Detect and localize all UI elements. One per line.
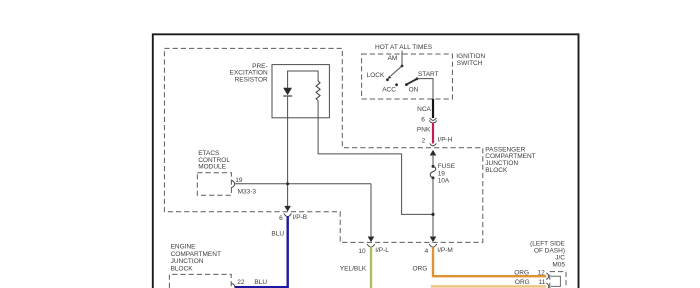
- wire J/C internal bus: [551, 276, 561, 286]
- svg-text:11: 11: [539, 279, 546, 286]
- svg-text:JUNCTION: JUNCTION: [171, 258, 204, 265]
- svg-text:START: START: [418, 71, 439, 78]
- resistor element: [316, 81, 320, 101]
- node AM contact: [401, 65, 404, 68]
- connector 11 at J/C: [547, 283, 549, 288]
- svg-text:10A: 10A: [438, 178, 450, 185]
- label pre-excitation resistor: [230, 63, 268, 84]
- solid border frame: [153, 34, 579, 288]
- svg-text:2: 2: [422, 137, 426, 144]
- svg-text:6: 6: [421, 116, 425, 123]
- svg-text:OF DASH): OF DASH): [534, 248, 565, 255]
- node junction dot: [286, 182, 289, 185]
- pre-excitation resistor box: [272, 65, 329, 118]
- wire BLU: [235, 217, 288, 288]
- wire ORG 11 (lower): [431, 285, 547, 287]
- switch arm ON-START (closed): [406, 79, 417, 85]
- wire NCA (thick black): [432, 99, 434, 118]
- svg-text:ORG: ORG: [514, 270, 529, 277]
- svg-text:10: 10: [358, 248, 366, 255]
- svg-text:EXCITATION: EXCITATION: [230, 69, 268, 76]
- svg-text:MODULE: MODULE: [198, 164, 226, 171]
- svg-text:BLOCK: BLOCK: [485, 167, 508, 174]
- wire START output: [417, 79, 433, 100]
- svg-text:BLU: BLU: [254, 279, 267, 286]
- svg-text:NCA: NCA: [417, 106, 431, 113]
- wire internal top: [288, 71, 319, 88]
- arrow connector 4 I/P-M: [430, 237, 437, 243]
- wire resistor branch to fuse output: [318, 101, 432, 215]
- svg-text:ORG: ORG: [515, 279, 530, 286]
- switch arm AM-LOCK: [390, 66, 402, 76]
- svg-text:AM: AM: [388, 55, 398, 62]
- svg-text:COMPARTMENT: COMPARTMENT: [171, 251, 221, 258]
- label ignition switch: [456, 53, 485, 67]
- wire AM feed: [401, 51, 403, 66]
- node START contact: [416, 77, 419, 80]
- svg-text:M33-3: M33-3: [238, 188, 257, 195]
- wire down to I/P-L: [370, 184, 372, 237]
- svg-text:22: 22: [237, 279, 245, 286]
- svg-text:SWITCH: SWITCH: [457, 60, 483, 67]
- svg-text:I/P-L: I/P-L: [375, 247, 389, 254]
- label engine compartment junction block: [171, 244, 221, 273]
- wire etacs to junction: [235, 183, 371, 185]
- svg-text:PNK: PNK: [417, 126, 431, 133]
- svg-text:19: 19: [235, 177, 243, 184]
- svg-text:IGNITION: IGNITION: [456, 53, 485, 60]
- diode D1: [283, 88, 292, 95]
- label passenger compartment junction block: [485, 147, 535, 175]
- svg-text:RESISTOR: RESISTOR: [235, 76, 268, 83]
- wire diode branch down: [287, 96, 289, 206]
- J/C M05 dashed box: [550, 272, 566, 288]
- svg-text:4: 4: [425, 248, 429, 255]
- dashed boundary: engine/dash area + passenger compartment junction block: [164, 48, 482, 242]
- node fuse output junction: [431, 213, 434, 216]
- svg-text:BLU: BLU: [271, 230, 284, 237]
- wire YEL/BLK: [369, 247, 372, 288]
- wire fuse output: [432, 178, 434, 237]
- node ON contact: [405, 83, 408, 86]
- arrow connector 10 I/P-L: [368, 237, 375, 243]
- arrow into fuse block: [430, 150, 437, 156]
- svg-text:6: 6: [279, 215, 283, 222]
- svg-text:19: 19: [438, 170, 446, 177]
- svg-text:YEL/BLK: YEL/BLK: [340, 265, 367, 272]
- svg-text:ORG: ORG: [413, 265, 428, 272]
- node ACC contact: [395, 83, 398, 86]
- label left side of dash J/C M05: [530, 241, 566, 269]
- svg-text:LOCK: LOCK: [367, 72, 385, 79]
- wire ORG to J/C: [433, 247, 546, 276]
- label etacs control module: [198, 150, 230, 171]
- svg-text:ON: ON: [409, 87, 419, 94]
- engine compartment junction block dashed box: [169, 274, 231, 288]
- svg-text:HOT AT ALL TIMES: HOT AT ALL TIMES: [375, 44, 433, 51]
- svg-text:I/P-H: I/P-H: [438, 137, 453, 144]
- svg-text:12: 12: [537, 270, 545, 277]
- fuse 19 10A: [432, 165, 435, 168]
- connector 12 at J/C: [546, 273, 548, 280]
- svg-text:I/P-B: I/P-B: [293, 214, 307, 221]
- arrow connector 6 I/P-B: [284, 206, 291, 212]
- svg-text:ENGINE: ENGINE: [171, 244, 197, 251]
- svg-text:BLOCK: BLOCK: [171, 265, 194, 272]
- etacs control module box: [197, 173, 231, 196]
- svg-text:FUSE: FUSE: [438, 163, 456, 170]
- pin 22 connector: [231, 284, 235, 288]
- wire PNK: [432, 123, 434, 144]
- node LOCK contact: [386, 78, 389, 81]
- svg-text:I/P-M: I/P-M: [437, 247, 453, 254]
- svg-text:ACC: ACC: [382, 87, 396, 94]
- pin 19 M33-3: [231, 181, 234, 188]
- svg-text:M05: M05: [552, 261, 565, 268]
- ignition switch dashed box: [362, 54, 453, 99]
